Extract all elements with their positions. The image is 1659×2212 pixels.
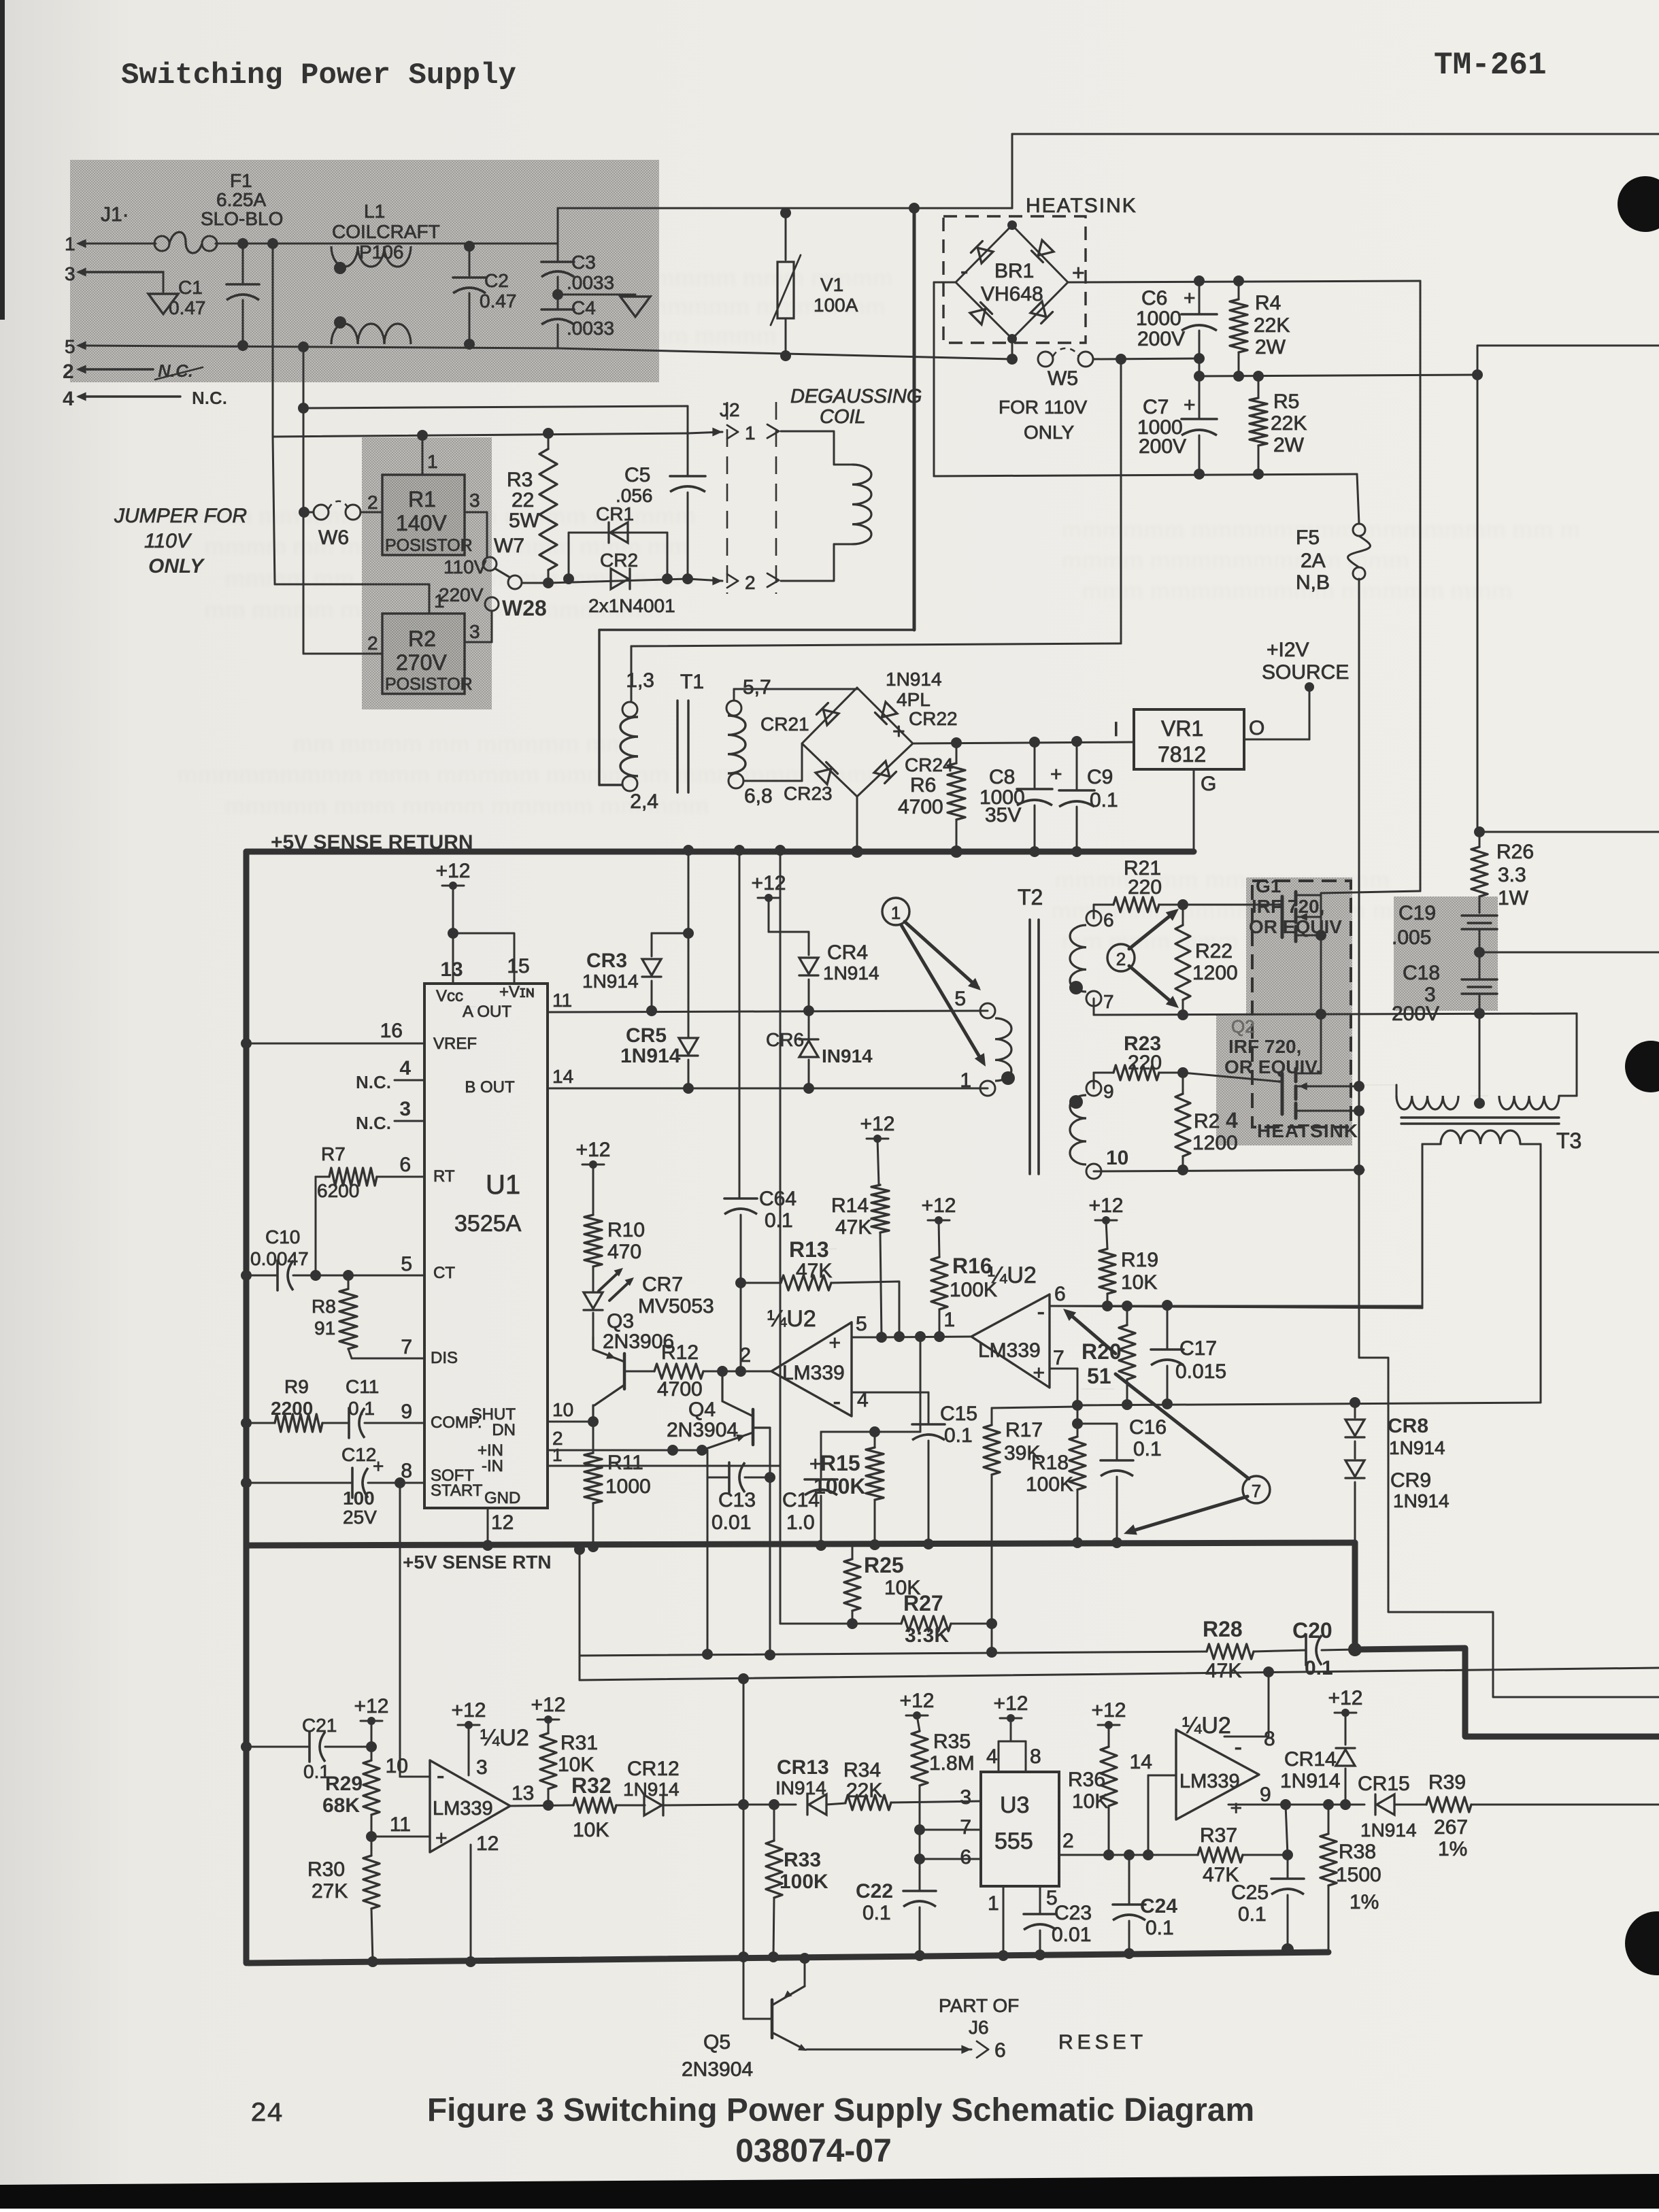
svg-text:0.015: 0.015 [1175,1360,1226,1383]
svg-text:+12: +12 [576,1139,611,1161]
bridge BR1 diode TL [971,241,993,263]
wire T1 6-8 to bridge [743,743,802,781]
callout circle 1 [882,898,909,925]
svg-text:R39: R39 [1428,1771,1466,1794]
capacitor C12 [241,1444,424,1528]
svg-text:R38: R38 [1339,1841,1376,1863]
svg-text:1N914: 1N914 [623,1779,680,1800]
resistor R18 [1026,1405,1086,1543]
svg-text:+12: +12 [860,1113,895,1135]
capacitor C9 [1059,741,1118,852]
node CR3 AOUT [646,1005,657,1016]
svg-text:+: + [1184,394,1196,416]
svg-text:C10: C10 [265,1226,300,1247]
svg-text:R12: R12 [661,1341,699,1364]
svg-text:F1: F1 [230,170,252,191]
J1 pin 1 [65,233,86,254]
node R18 bus [1072,1537,1083,1548]
wire softstart drop [400,1483,430,1777]
node R30 bus [367,1956,378,1967]
label aux plus [892,719,905,743]
wire degauss hot row [273,433,688,437]
+12 for R36 [1092,1699,1126,1747]
svg-text:5W: 5W [509,509,540,532]
svg-text:10K: 10K [1121,1271,1157,1294]
svg-text:3: 3 [469,490,480,511]
svg-text:R19: R19 [1121,1249,1158,1271]
U1 pin3 NC [356,1098,424,1133]
U3 pin3 wire [960,1786,971,1809]
node switch C18 [1474,1008,1485,1019]
node CR4 AOUT [803,1005,814,1016]
node R19 bottom [1102,1301,1113,1311]
svg-text:-: - [1235,1735,1242,1760]
svg-text:6: 6 [1054,1283,1066,1305]
svg-text:1N914: 1N914 [1280,1770,1340,1792]
svg-text:R34: R34 [843,1759,881,1781]
Q1 shaded box [1246,877,1352,1017]
svg-text:Figure 3 Switching Power Supp: Figure 3 Switching Power Supply Schemati… [427,2092,1254,2128]
svg-text:1: 1 [988,1892,999,1915]
svg-text:7812: 7812 [1158,742,1206,767]
wire fb row [580,1652,1207,1656]
svg-text:24: 24 [250,2099,283,2130]
degaussing coil [781,431,871,581]
capacitor C5 [616,406,705,579]
right outline box top [1477,346,1659,832]
capacitor C10 [241,1226,424,1290]
node R26 top [1474,826,1659,837]
label Q2 IRF720 [1224,1016,1321,1077]
svg-text:N,B: N,B [1296,571,1330,594]
node pin2 a [667,1445,678,1456]
svg-text:CR6: CR6 [766,1029,804,1050]
fuse F5 [1296,474,1371,594]
svg-text:Switching Power Supply: Switching Power Supply [121,58,516,93]
svg-text:RT: RT [433,1167,455,1186]
capacitor C3 [541,252,614,293]
svg-text:3:3K: 3:3K [905,1624,949,1647]
svg-text:CR2: CR2 [600,550,638,571]
U1 pin2 wire [548,1428,702,1450]
capacitor C17 [1151,1305,1226,1405]
capacitor C24 [1113,1855,1177,1954]
svg-text:+5V SENSE RTN: +5V SENSE RTN [403,1552,552,1573]
node BR1 bottom [1007,334,1018,365]
wire x1093 low drop [738,1805,749,2019]
svg-text:2: 2 [1062,1830,1074,1852]
svg-text:PART OF: PART OF [939,1995,1019,2016]
wire x852 drop [574,1544,585,1680]
resistor R30 [307,1837,380,1962]
svg-text:CR3: CR3 [586,950,627,972]
wire pin6 T3 sense [1095,1305,1422,1307]
node fb C13 [702,1649,713,1660]
svg-text:2200: 2200 [271,1398,313,1419]
T2 sec winding 67 [1070,925,1086,992]
comparator U2b [971,1262,1050,1388]
jumper W6 [303,501,382,549]
capacitor C15 [912,1392,977,1544]
comparator U2d [1176,1713,1259,1820]
svg-text:R16: R16 [952,1254,992,1278]
svg-text:5,7: 5,7 [743,676,771,699]
svg-text:C4: C4 [571,297,596,318]
U1 pin names [431,983,535,1507]
node R6 bottom [950,845,962,858]
T2 core [1030,920,1039,1174]
svg-text:+12: +12 [994,1692,1028,1715]
svg-text:MV5053: MV5053 [638,1295,714,1318]
diode CR1 loop [569,533,667,579]
svg-text:-: - [833,1389,841,1415]
node R12 a [717,1366,728,1377]
node R37 C25 [1280,1799,1291,1810]
svg-text:R2: R2 [408,626,436,651]
resistor R22 [1175,905,1238,1015]
wire x1093 drop [743,1679,745,1805]
U3 pin2 wire [1059,1830,1176,1855]
wire neutral drop x446 [303,347,305,408]
svg-text:+12: +12 [1092,1699,1126,1722]
resistor R29 [322,1760,380,1837]
wire Q1 source node [1094,999,1577,1015]
VR1 pin G [1194,769,1216,852]
svg-text:1N914: 1N914 [1393,1490,1449,1511]
U1 pin numbers top [440,955,529,981]
svg-text:35V: 35V [985,804,1021,826]
resistor R15 [814,1426,884,1545]
svg-text:25V: 25V [343,1507,377,1528]
svg-text:CR9: CR9 [1390,1469,1431,1492]
node CR loop left [563,573,574,584]
+12 for R10 [576,1139,611,1215]
label 2x1N4001 [588,595,675,616]
resistor R33 [766,1805,828,1957]
+12 for CR14 [1328,1687,1363,1745]
capacitor C23 [1024,1902,1092,1955]
svg-text:R18: R18 [1031,1452,1069,1474]
svg-text:¼U2: ¼U2 [480,1725,529,1751]
diode CR24 [874,754,954,784]
svg-text:1500: 1500 [1336,1864,1381,1886]
svg-text:3.3: 3.3 [1498,864,1526,886]
svg-text:1: 1 [745,422,756,443]
callout circle 7 [1243,1476,1270,1503]
G1 dashed outline [1252,881,1351,1127]
U1 pin4 NC [356,1057,424,1092]
label +5V sense return [271,831,473,854]
node C15 bus [923,1539,934,1549]
node C8 bottom [1029,846,1040,857]
svg-text:CR13: CR13 [777,1756,829,1779]
node R31 bottom [543,1800,554,1811]
wire Q2 source to sense [1359,1358,1659,1697]
wire aux bridge bottom [851,797,863,858]
svg-text:1000: 1000 [605,1475,651,1498]
T2 sec pin10 [1086,1147,1128,1179]
svg-text:A OUT: A OUT [463,1003,512,1021]
+12 for R19 [1089,1194,1124,1249]
svg-text:CR22: CR22 [909,708,958,729]
svg-text:START: START [431,1481,483,1500]
diode CR4 [799,932,879,1011]
svg-text:6,8: 6,8 [744,785,773,807]
node R21 right [1177,899,1188,910]
label 220V [439,584,484,605]
svg-text:Q4: Q4 [688,1398,716,1421]
svg-text:3: 3 [476,1756,488,1779]
wire F5 to Q2 source [1358,579,1360,1358]
svg-text:100: 100 [343,1488,375,1509]
wire x446 down [303,408,305,654]
bus +5V sense return top [246,849,1194,855]
U2c pin10 label [386,1755,408,1777]
wire T1 5-7 to bridge [734,689,857,701]
svg-text:DN: DN [492,1421,516,1439]
svg-text:3525A: 3525A [454,1211,522,1237]
svg-text:8: 8 [1264,1728,1275,1750]
node pin2 b [697,1445,707,1456]
U2c output wire [510,1782,573,1806]
svg-text:CR5: CR5 [626,1024,667,1047]
node U3 pin1 bus [998,1950,1009,1961]
svg-text:2: 2 [367,633,378,654]
node R13 left [735,1277,746,1288]
svg-text:DEGAUSSING: DEGAUSSING [790,386,922,407]
connector J2 dashes [720,399,776,594]
node W5 T1 tap [1116,354,1126,365]
resistor R4 [1230,281,1290,376]
svg-text:51: 51 [1087,1364,1111,1388]
wire T1 13 drop [631,646,633,702]
resistor R3 [507,433,557,583]
bus thick elbow1 [1355,1543,1659,1737]
node C23 bus [1035,1949,1045,1960]
svg-text:HEATSINK: HEATSINK [1026,195,1137,217]
capacitor C13 [707,1462,775,1534]
svg-text:R27: R27 [903,1591,943,1615]
node Q2 source b [1354,1105,1364,1116]
node R1 pin1 tap [417,430,428,441]
wire T3 right top [1576,1013,1578,1096]
svg-text:+: + [435,1827,448,1849]
node C14 bus [816,1540,826,1551]
svg-text:CR7: CR7 [642,1273,683,1296]
T2 sec winding 910 [1070,1095,1086,1164]
capacitor C8 [979,742,1062,852]
LED CR7 [584,1267,714,1339]
svg-text:T2: T2 [1018,885,1043,909]
U3 pins 4 8 [986,1692,1041,1772]
label +5V sense rtn [403,1552,552,1573]
diode CR15 [1358,1773,1426,1841]
node R3 top [543,428,554,439]
+12 for R31 [531,1694,566,1733]
resistor R16 [931,1254,997,1342]
svg-text:6: 6 [1103,909,1114,931]
node CR12 gnd [738,1799,749,1810]
node R5 top [1253,371,1264,382]
svg-text:9: 9 [1260,1783,1271,1806]
svg-text:R9: R9 [284,1376,309,1397]
diode CR2 [600,550,638,589]
T2 primary pin5 [954,988,995,1018]
svg-text:555: 555 [994,1828,1033,1854]
resistor R32 [571,1773,634,1841]
svg-text:¼U2: ¼U2 [988,1262,1037,1288]
svg-text:CT: CT [433,1264,455,1282]
svg-text:200V: 200V [1139,435,1186,458]
svg-text:2: 2 [739,1344,751,1367]
wire AC neutral out [558,348,1012,359]
+12 for R35 [900,1690,935,1731]
svg-text:R33: R33 [784,1849,821,1871]
node C24 bus [1124,1948,1135,1959]
svg-text:mm mmmm mm mmmmm mm: mm mmmm mm mmmmm mm [292,731,626,757]
capacitor C11 [346,1376,424,1438]
resistor R9 [241,1376,349,1432]
svg-text:R36: R36 [1068,1769,1105,1791]
callout circle 2 [1107,944,1135,971]
wire T1 13 riser [631,361,1121,646]
svg-text:C3: C3 [571,252,596,273]
svg-text:Q5: Q5 [703,2031,731,2054]
svg-text:C8: C8 [989,766,1015,788]
posistor R1 pin3 [465,490,487,557]
wire top rail to page edge [1012,133,1659,135]
bottom scan bar [0,2174,1659,2209]
svg-text:6.25A: 6.25A [216,189,266,210]
svg-text:1: 1 [891,903,901,923]
svg-text:C22: C22 [856,1880,893,1903]
resistor R26 [1471,832,1534,913]
svg-text:R31: R31 [560,1732,598,1754]
svg-text:CR4: CR4 [827,941,868,964]
T1 secondary bot pin [728,773,773,807]
svg-text:POSISTOR: POSISTOR [385,536,473,555]
node fb R17 [986,1647,997,1658]
capacitor C64 [724,1188,797,1371]
label 110V [443,556,487,577]
svg-text:22K: 22K [1271,412,1307,435]
svg-text:C21: C21 [302,1715,337,1736]
T2 sec pin9 [1069,1081,1114,1109]
svg-text:-: - [960,258,968,284]
svg-text:C15: C15 [940,1403,977,1425]
heatsink label BR1 [1026,195,1137,217]
svg-text:C16: C16 [1129,1416,1167,1439]
J1 pin 3 [65,263,163,284]
transformer T1 label [680,671,704,693]
svg-text:0.1: 0.1 [862,1902,891,1924]
svg-text:1%: 1% [1438,1838,1467,1860]
node CR14 out [1340,1799,1351,1810]
fuse F1 [154,170,283,253]
posistor R1 box [382,475,473,555]
U1 pin16 VREF wire [241,1020,424,1049]
svg-text:0.1: 0.1 [1305,1657,1333,1679]
node C1 bottom [237,340,248,351]
svg-text:C13: C13 [718,1489,756,1511]
label reset [1058,2031,1147,2054]
svg-text:LM339: LM339 [1179,1771,1240,1792]
left scan edge [0,0,5,320]
node R3 bottom [543,577,554,588]
svg-text:W6: W6 [318,526,349,549]
IC U1 box [424,984,548,1508]
capacitor C16 [1077,1416,1167,1543]
node R27 R17 [986,1618,997,1629]
wire DC minus rail [934,474,1357,476]
wire R2 pin2 row [303,653,382,655]
svg-text:R11: R11 [607,1452,643,1474]
svg-text:R32: R32 [571,1773,611,1798]
resistor R7 [316,1143,424,1201]
U1 +12 feed [436,860,471,984]
node U2c pin12 bus [465,1956,476,1967]
resistor R34 [843,1759,981,1810]
label heatsink 2 [1257,1120,1358,1141]
svg-text:12: 12 [491,1511,514,1534]
figure caption [427,2092,1254,2128]
node fb x852 [579,1655,580,1656]
svg-text:13: 13 [512,1782,534,1805]
+12 for R16 [922,1194,956,1257]
resistor R23 [1094,1033,1183,1088]
node C21 R29 [366,1741,377,1752]
transformer T3 top right [1499,1096,1577,1109]
jumper W5 [1038,348,1093,390]
svg-text:¼U2: ¼U2 [767,1306,816,1332]
wire EMI out top corner [557,208,559,262]
node pin14 U3pin2 [1143,1849,1154,1860]
svg-text:1W: 1W [1498,887,1529,909]
diode CR12 [623,1758,743,1815]
svg-text:CR12: CR12 [627,1758,680,1780]
EMI filter shaded box [70,160,659,382]
svg-text:6: 6 [994,2039,1006,2062]
choke L1 labels [332,201,440,263]
wire gate Q2 [1183,1073,1279,1082]
node C9 top [1071,736,1082,747]
svg-text:ONLY: ONLY [148,555,205,577]
U1 pin14 BOUT wire [548,1066,988,1088]
capacitor C2 [453,246,517,344]
wire degauss return row [548,579,688,583]
capacitor C25 [1231,1855,1304,1949]
svg-text:038074-07: 038074-07 [735,2133,892,2169]
svg-text:-IN: -IN [482,1457,503,1475]
svg-text:7: 7 [960,1816,971,1839]
svg-text:N.C.: N.C. [192,388,227,408]
node gnd pin8 [1263,1666,1274,1677]
resistor R37 [1148,1824,1288,1886]
svg-text:+12: +12 [1089,1194,1124,1217]
svg-text:8: 8 [1030,1745,1041,1768]
svg-text:W5: W5 [1048,367,1078,390]
capacitor C19 [1392,902,1497,951]
svg-text:OR EQUIV: OR EQUIV [1249,916,1342,937]
node pin5 R13 [894,1331,905,1342]
svg-text:22: 22 [512,489,534,512]
svg-text:V1: V1 [820,274,843,295]
node R4 bot [1233,371,1244,382]
resistor R28 [1203,1617,1254,1682]
svg-text:POSISTOR: POSISTOR [385,675,473,694]
svg-text:68K: 68K [322,1794,360,1817]
svg-text:7: 7 [1103,991,1114,1012]
